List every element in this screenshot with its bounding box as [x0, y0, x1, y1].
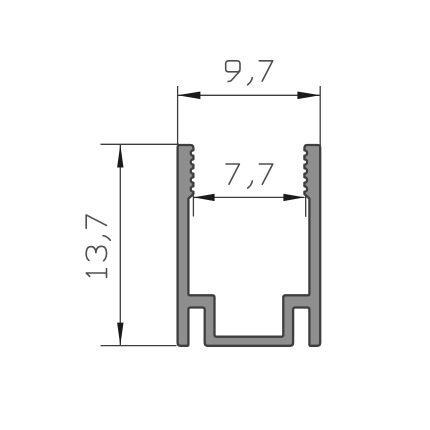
dimension 9,7 : dimension line — [178, 94, 321, 96]
dimension 7,7 : extension lines — [192, 195, 194, 217]
dimension 7,7 : right arrowhead — [283, 194, 304, 201]
dimension 9,7 : label — [226, 61, 273, 85]
dimension 13,7 : bottom arrowhead — [117, 323, 123, 346]
dimension 9,7 : extension lines — [177, 86, 179, 147]
dimension 13,7 : label (rotated, reads bottom to top) — [86, 215, 110, 277]
dimension 7,7 : label — [226, 164, 273, 188]
aluminium profile cross-section body — [178, 145, 321, 346]
dimension 13,7 : extension lines — [101, 143, 180, 145]
dimension 13,7 : top arrowhead — [117, 145, 123, 168]
dimension 9,7 : right arrowhead — [297, 92, 320, 100]
dimension 9,7 : left arrowhead — [178, 92, 201, 100]
dimension 13,7 : dimension line — [119, 145, 121, 346]
dimension 7,7 : dimension line — [193, 196, 304, 198]
dimension 7,7 : left arrowhead — [193, 194, 214, 201]
